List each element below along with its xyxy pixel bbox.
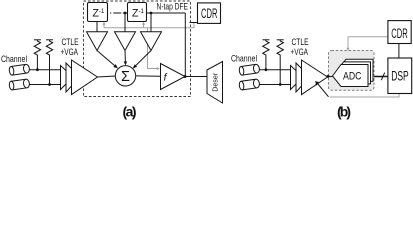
wire: channel n to amp (b) (259, 84, 290, 86)
ADC slice shadow 2 (338, 59, 374, 81)
termination resistor R3 (262, 40, 269, 71)
tap weight amplifier W1 (87, 32, 108, 51)
svg-text:DSP: DSP (391, 69, 409, 84)
gray clock wire CDR to ADC (346, 37, 388, 51)
channel cylinder N (9, 79, 30, 90)
wire drop node to tap3 (150, 13, 152, 32)
svg-text:(b): (b) (337, 104, 351, 120)
svg-text:CDR: CDR (201, 6, 218, 21)
delay element Z-1 U2 (128, 3, 147, 22)
label Channel (a) (1, 54, 27, 65)
wire slicer to deserializer (185, 76, 207, 78)
gray clock rail from CDR (104, 23, 194, 28)
termination resistor R2 (46, 40, 53, 86)
svg-text:N-tap DFE: N-tap DFE (157, 1, 189, 11)
arrow tap2 to summer (124, 51, 127, 66)
label Channel (b) (231, 54, 257, 65)
arrow tap1 to summer (97, 51, 118, 69)
termination resistor R1 (34, 40, 41, 71)
wire: channel p to amp (29, 69, 60, 71)
node: slicer output junction (184, 75, 187, 78)
wire drop node to tap2 (124, 13, 126, 32)
wire amp to ADC (327, 75, 333, 78)
CDR block (a) (198, 3, 221, 24)
svg-text:ADC: ADC (343, 70, 362, 82)
ADC slice shadow 1 (335, 62, 371, 84)
caption (b) (337, 104, 351, 120)
svg-text:Σ: Σ (121, 69, 130, 85)
wire summer to slicer (136, 75, 161, 77)
CTLE+VGA amplifier A1 (61, 60, 98, 95)
tap weight amplifier W2 (115, 32, 136, 51)
CTLE+VGA amplifier A2 (291, 60, 328, 95)
channel cylinder P (9, 64, 30, 75)
wire chain U1 to U2 (dash-dot) (110, 12, 128, 15)
DFE dashed box (84, 1, 191, 97)
caption (a) (123, 104, 137, 120)
wire CDR to DSP (398, 44, 400, 59)
wire: channel n to amp (29, 84, 60, 86)
DSP block (388, 58, 412, 94)
svg-text:Channel: Channel (1, 54, 27, 65)
label CTLE+VGA (a) (61, 37, 79, 57)
gray clock arrow into Z-1 box U1 (102, 22, 105, 28)
wire DFE feedback up (184, 13, 186, 77)
wire: channel p to amp (b) (259, 69, 290, 71)
svg-text:CTLE: CTLE (292, 37, 309, 47)
label CTLE+VGA (b) (291, 37, 309, 57)
slicer (decision element) (161, 64, 186, 90)
label N-tap DFE (156, 1, 190, 11)
gray adaptation wire DSP to AGC (330, 94, 400, 98)
CDR block (b) (388, 21, 411, 44)
ADC block (333, 65, 369, 87)
wire drop U1 to tap1 (96, 22, 98, 32)
svg-text:CDR: CDR (391, 26, 408, 41)
termination resistor R4 (277, 40, 284, 86)
wire to CDR (a) (190, 22, 198, 24)
delay element Z-1 U1 (88, 3, 108, 22)
gray clock arrow into Z-1 box U2 (142, 22, 145, 28)
svg-text:+VGA: +VGA (61, 47, 79, 57)
wire ADC to DSP with bus slash (374, 73, 388, 81)
deserializer block (207, 62, 223, 104)
summer S1 (115, 66, 135, 86)
svg-text:Deser: Deser (210, 72, 219, 91)
svg-text:CTLE: CTLE (62, 37, 79, 47)
arrow tap3 to summer (133, 51, 151, 69)
gray clock wire to slicer (148, 28, 160, 70)
wire amp to summer (98, 76, 116, 77)
tap weight amplifier W3 (141, 32, 162, 51)
svg-text:Channel: Channel (231, 54, 257, 65)
AGC annotation arrow to VGA (315, 81, 328, 97)
ADC interleaver panel (dashed) (329, 51, 375, 91)
channel cylinder N (b) (239, 79, 260, 90)
wire chain U2 to feedback corner (147, 12, 186, 15)
svg-text:(a): (a) (123, 104, 137, 120)
svg-text:+VGA: +VGA (291, 47, 309, 57)
channel cylinder P (b) (239, 64, 260, 75)
